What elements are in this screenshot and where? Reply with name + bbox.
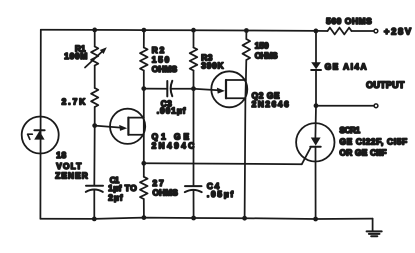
svg-text:OR GE CIIF: OR GE CIIF <box>340 148 387 158</box>
diode GE A14A <box>311 31 366 106</box>
resistor R1 100M (variable) <box>64 30 107 68</box>
svg-text:SCR1: SCR1 <box>340 125 361 135</box>
node C3 right / Q2 emitter / R3 <box>191 86 196 91</box>
svg-text:100M: 100M <box>64 51 87 61</box>
svg-text:+28V: +28V <box>384 26 412 37</box>
node top of diode branch <box>314 29 319 34</box>
svg-text:390K: 390K <box>201 61 223 71</box>
svg-text:ZENER: ZENER <box>55 171 88 181</box>
node top of 150-ohm <box>244 28 249 33</box>
svg-text:GE CI22F, CI5F: GE CI22F, CI5F <box>340 136 408 146</box>
svg-text:OHMS: OHMS <box>152 64 178 74</box>
resistor R3 390K <box>190 30 224 70</box>
node C1 bottom <box>92 217 97 222</box>
wire top rail <box>41 30 328 31</box>
node SCR cathode bottom <box>313 217 318 222</box>
svg-text:2µf: 2µf <box>108 192 123 202</box>
svg-text:27: 27 <box>153 178 164 188</box>
wire SCR gate to 27-ohm top <box>144 162 302 165</box>
terminal +28V <box>374 26 412 37</box>
node output junction <box>314 103 319 108</box>
wire 2.7K to C1 <box>93 107 95 186</box>
svg-text:.001µf: .001µf <box>157 106 186 116</box>
capacitor C4 .05uf <box>185 181 234 218</box>
wire R1 to 2.7K <box>94 66 96 89</box>
svg-text:560 OHMS: 560 OHMS <box>326 16 372 26</box>
node top of R2 <box>142 28 147 33</box>
node top of R1 <box>92 28 97 33</box>
svg-text:2.7K: 2.7K <box>62 96 86 106</box>
svg-text:OUTPUT: OUTPUT <box>366 80 405 90</box>
terminal OUTPUT <box>316 80 405 108</box>
resistor 2.7K <box>62 88 99 107</box>
node R2/C3 <box>141 86 146 91</box>
capacitor C3 .001uf <box>144 81 194 116</box>
transistor Q1 GE 2N494C (UJT) <box>95 109 195 151</box>
resistor 27 OHMS <box>140 177 178 218</box>
svg-text:OHMS: OHMS <box>153 188 179 198</box>
svg-text:2N494C: 2N494C <box>152 141 195 151</box>
node junction 2.7K / Q1 emitter <box>92 123 97 128</box>
svg-text:150: 150 <box>255 41 269 51</box>
svg-text:VOLT: VOLT <box>56 161 81 171</box>
wire bottom rail <box>40 218 372 219</box>
wire 150-ohm bottom through Q2 leads to bottom rail <box>245 60 247 218</box>
wire left border <box>39 30 41 219</box>
transistor Q2 GE 2N2646 (UJT) <box>194 71 290 109</box>
zener diode 18 VOLT ZENER <box>22 117 88 181</box>
resistor 560 OHMS <box>326 16 374 34</box>
svg-text:.05µf: .05µf <box>207 189 234 199</box>
node 27-ohm / gate wire <box>141 161 146 166</box>
node Q2 branch bottom <box>242 216 247 221</box>
wire R2 bottom to Q1 line down to 27-ohm <box>143 71 145 177</box>
svg-text:18: 18 <box>56 150 66 160</box>
resistor R2 150 OHMS <box>140 30 178 74</box>
svg-text:OHMS: OHMS <box>255 50 278 60</box>
node C4 bottom <box>191 216 196 221</box>
svg-text:150: 150 <box>152 54 170 64</box>
ground <box>367 219 382 237</box>
svg-text:GE AI4A: GE AI4A <box>325 61 367 71</box>
svg-text:1µf TO: 1µf TO <box>108 183 137 193</box>
node 27-ohm bottom <box>142 215 147 220</box>
SCR1 GE C122F, C15F OR GE C11F <box>296 106 407 219</box>
wire R3 bottom through gate-wire crossing to C4 <box>193 71 195 187</box>
resistor 150 OHMS <box>243 31 278 61</box>
capacitor C1 1uf to 2uf <box>86 175 137 219</box>
node top of R3 <box>191 28 196 33</box>
